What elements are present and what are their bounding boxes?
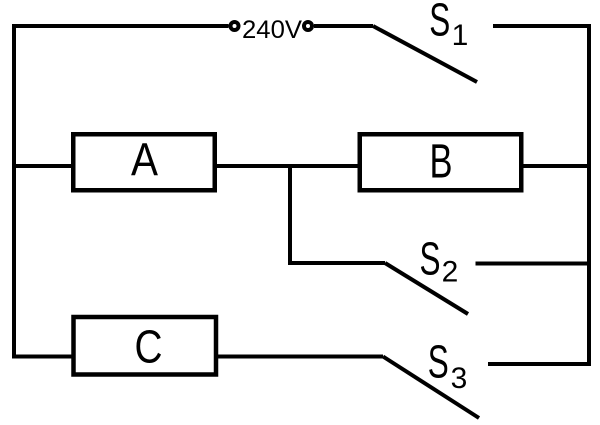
element B box: [360, 134, 522, 190]
wire: element A to element B: [216, 164, 361, 168]
wire: element C to switch S3 pivot: [216, 355, 383, 359]
svg-text:2: 2: [442, 256, 459, 289]
switch S3 blade: [383, 357, 479, 419]
source terminal left (open dot): [231, 22, 239, 30]
svg-text:S: S: [428, 336, 449, 388]
element A box: [73, 134, 215, 190]
wire: switch S2 right terminal to right bus: [476, 262, 590, 266]
wire: element B to right bus: [522, 164, 589, 168]
wire: junction branch down to switch S2 pivot: [290, 166, 385, 263]
wire: A-row from left bus to element A: [14, 164, 72, 168]
source terminal right (open dot): [304, 22, 312, 30]
switch S1 blade: [373, 26, 477, 82]
wire: right bus (S1 output down to S3 output): [488, 26, 589, 364]
switch S2 blade: [385, 263, 468, 314]
svg-text:240V: 240V: [242, 16, 302, 44]
element C box: [74, 317, 217, 375]
svg-text:S: S: [429, 0, 450, 46]
wire: top + left bus (source to bottom-left): [14, 26, 229, 357]
svg-text:3: 3: [451, 362, 468, 395]
svg-text:1: 1: [452, 19, 469, 52]
svg-text:C: C: [135, 321, 163, 373]
svg-text:S: S: [420, 233, 441, 285]
wire: source right terminal to switch S1 pivot: [314, 24, 373, 28]
svg-text:A: A: [131, 134, 158, 186]
svg-text:B: B: [430, 136, 453, 189]
